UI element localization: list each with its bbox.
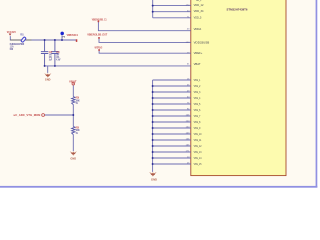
svg-text:BLM18AG102TN3D: BLM18AG102TN3D <box>10 43 25 46</box>
ferrite bead FB1 <box>21 37 26 43</box>
svg-text:VREF3V3: VREF3V3 <box>95 47 103 50</box>
wire uC_ADC_VTG_MON <box>45 114 74 116</box>
svg-text:VSS_8: VSS_8 <box>194 122 201 124</box>
svg-text:VBAT: VBAT <box>194 63 202 66</box>
svg-text:4.7uF: 4.7uF <box>56 59 61 62</box>
junction dots top rail <box>44 39 46 41</box>
resistor R29 <box>72 97 75 105</box>
svg-text:VSS_1: VSS_1 <box>194 80 201 82</box>
dangling wire end tick (VDD33USB net) <box>98 37 100 39</box>
svg-text:VDD_34: VDD_34 <box>194 11 205 13</box>
svg-text:VBB3V3C1: VBB3V3C1 <box>67 34 79 37</box>
page border right <box>316 0 318 188</box>
wire VDD pin 2 <box>153 11 191 13</box>
wire capacitor C16 leads <box>54 40 56 66</box>
svg-text:FB1: FB1 <box>20 35 24 37</box>
svg-text:VSS_3: VSS_3 <box>194 92 201 94</box>
svg-text:GND: GND <box>45 79 51 82</box>
svg-text:VDD_5: VDD_5 <box>194 17 203 19</box>
svg-text:VSS_4: VSS_4 <box>194 98 201 100</box>
svg-text:VDDA: VDDA <box>194 28 202 31</box>
dangling wire end tick (VDDA net) <box>98 21 100 23</box>
svg-text:VSS_2: VSS_2 <box>194 86 201 88</box>
wire VCC3V3 rail <box>10 36 76 40</box>
svg-text:VBB3V3USB_C1: VBB3V3USB_C1 <box>92 18 107 21</box>
wire VDD vertical bus top <box>152 0 154 18</box>
dangling wire end tick (VCC rail) <box>76 39 78 42</box>
ground symbol below R30 <box>70 151 77 155</box>
page border bottom <box>0 186 317 188</box>
svg-text:VSS_14: VSS_14 <box>194 158 202 160</box>
svg-text:uC_ADC_VTG_MON: uC_ADC_VTG_MON <box>14 113 41 117</box>
svg-text:1uF: 1uF <box>49 60 53 62</box>
svg-text:VBAT: VBAT <box>69 81 77 84</box>
svg-text:VCC3V3: VCC3V3 <box>7 30 16 34</box>
svg-text:100K: 100K <box>76 100 80 102</box>
wire VDD33USB net <box>99 38 191 42</box>
junction dots VSS bus <box>152 85 154 87</box>
ground symbol below caps <box>44 73 51 77</box>
wire R30 to ground <box>72 135 74 152</box>
svg-text:VBB3V3LSB_EXT: VBB3V3LSB_EXT <box>87 34 107 37</box>
ground symbol below VSS bus <box>149 172 156 177</box>
svg-text:1%: 1% <box>76 133 78 135</box>
dangling wire end tick (VREF net) <box>98 49 100 51</box>
svg-text:VSS_11: VSS_11 <box>194 140 202 142</box>
junction dots VDD bus <box>152 5 154 7</box>
svg-text:R30: R30 <box>76 128 80 130</box>
svg-text:GND: GND <box>70 158 76 161</box>
svg-text:0603: 0603 <box>10 49 14 51</box>
capacitor C15 plates <box>41 52 48 54</box>
svg-text:VSS_15: VSS_15 <box>194 164 202 166</box>
wire VDD pin 3 <box>153 17 191 19</box>
svg-text:VREF+: VREF+ <box>194 53 204 55</box>
svg-text:VSS_12: VSS_12 <box>194 146 202 148</box>
power pin marker (blue dot) <box>60 32 64 36</box>
wire VSS vertical bus <box>152 80 154 172</box>
wire VDDA net <box>98 22 190 31</box>
svg-text:STM32H743IIT6: STM32H743IIT6 <box>227 8 249 11</box>
power symbol VCC3V3 <box>9 34 12 36</box>
svg-text:GND: GND <box>151 178 157 181</box>
svg-text:VSS_9: VSS_9 <box>194 128 201 130</box>
svg-text:C15: C15 <box>49 52 53 54</box>
svg-text:DD_1: DD_1 <box>196 0 202 2</box>
resistor R30 <box>72 126 75 134</box>
wire ground stub below caps <box>47 66 49 73</box>
svg-text:R29: R29 <box>76 98 80 100</box>
op IC U1 yellow body <box>191 0 286 176</box>
svg-text:100K: 100K <box>76 130 80 132</box>
svg-text:VDD33USB: VDD33USB <box>194 43 210 45</box>
wire power-pin stub <box>61 35 63 40</box>
svg-text:C16: C16 <box>56 52 60 54</box>
off-page connector circle uC_ADC_VTG_MON <box>42 114 45 117</box>
svg-text:VSS_13: VSS_13 <box>194 152 202 154</box>
wire VREF+ net <box>99 50 191 53</box>
capacitor C16 plates <box>51 52 58 54</box>
wire capacitor C15 leads <box>44 40 46 66</box>
svg-text:VSS_10: VSS_10 <box>194 134 202 136</box>
svg-text:VSS_5: VSS_5 <box>194 104 201 106</box>
wire VBAT rail <box>45 65 191 67</box>
svg-text:VSS_6: VSS_6 <box>194 110 201 112</box>
svg-text:VSS_7: VSS_7 <box>194 116 201 118</box>
wire R29 to junction <box>72 105 74 127</box>
wire VDD pin 1 <box>153 5 191 7</box>
wire VBAT symbol to R29 <box>72 85 74 96</box>
page background (ivory schematic page) <box>0 0 320 192</box>
wire gray segment near FB1 <box>10 39 31 41</box>
svg-text:1.2A: 1.2A <box>10 46 14 49</box>
svg-text:VDD_12: VDD_12 <box>194 5 205 7</box>
svg-text:1%: 1% <box>76 103 78 105</box>
wire VSS pin stubs <box>153 79 191 81</box>
power symbol VBAT circle <box>72 82 75 85</box>
